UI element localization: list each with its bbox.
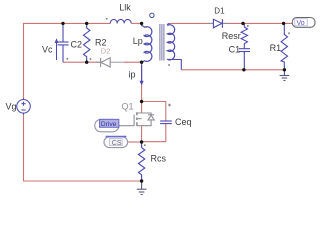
svg-text:D1: D1 bbox=[214, 7, 225, 16]
svg-text:Vc: Vc bbox=[42, 44, 53, 54]
wire secondary top bbox=[169, 22, 213, 24]
plus mark near Ceq bbox=[168, 104, 171, 107]
svg-text:Vg: Vg bbox=[6, 102, 17, 112]
svg-text:Resr: Resr bbox=[222, 31, 241, 41]
polarity circle bbox=[150, 13, 154, 17]
wire D2 to primary bbox=[124, 61, 142, 63]
svg-text:CS: CS bbox=[112, 140, 122, 147]
svg-text:Drive: Drive bbox=[101, 121, 117, 128]
pin-1 marks bbox=[67, 18, 290, 146]
diode D2 (ghosted) bbox=[96, 58, 110, 67]
resistor Resr bbox=[241, 23, 247, 48]
ip arrow bbox=[140, 65, 144, 86]
svg-text:Ceq: Ceq bbox=[175, 117, 192, 127]
transformer primary Lp bbox=[142, 23, 152, 62]
wire secondary bottom bbox=[181, 69, 284, 71]
Vc arrow bbox=[55, 38, 59, 60]
wire clamp bottom bbox=[63, 61, 100, 63]
svg-text:R1: R1 bbox=[270, 43, 282, 53]
resistor Rcs bbox=[138, 142, 144, 181]
capacitor Ceq bbox=[160, 121, 172, 124]
ground (bottom) bbox=[137, 181, 147, 195]
resistor R1 bbox=[281, 23, 287, 69]
voltage source Vg bbox=[17, 98, 31, 115]
svg-text:C2: C2 bbox=[71, 40, 83, 50]
svg-text:ip: ip bbox=[129, 70, 136, 80]
MOSFET Q1 (ghosted) bbox=[119, 112, 154, 126]
port Vo bbox=[292, 18, 315, 28]
wire drain node bbox=[128, 62, 166, 142]
capacitor C2 bbox=[57, 23, 68, 62]
ground (under R1) bbox=[280, 70, 290, 81]
transformer secondary bbox=[167, 23, 181, 69]
svg-text:Llk: Llk bbox=[119, 2, 131, 12]
diode D1 bbox=[208, 22, 230, 24]
svg-text:Q1: Q1 bbox=[122, 102, 134, 112]
svg-text:Vo: Vo bbox=[297, 20, 305, 27]
svg-text:C1: C1 bbox=[229, 45, 241, 55]
svg-text:Rcs: Rcs bbox=[151, 154, 167, 164]
inductor Llk bbox=[110, 19, 131, 23]
capacitor C1 bbox=[239, 49, 250, 70]
transformer core bbox=[160, 24, 164, 61]
wire top-left loop bbox=[24, 23, 142, 181]
Drive bubble bbox=[95, 119, 119, 132]
CS bubble bbox=[104, 137, 128, 148]
resistor R2 bbox=[84, 23, 90, 62]
svg-text:D2: D2 bbox=[101, 46, 111, 55]
svg-text:Lp: Lp bbox=[133, 36, 143, 46]
